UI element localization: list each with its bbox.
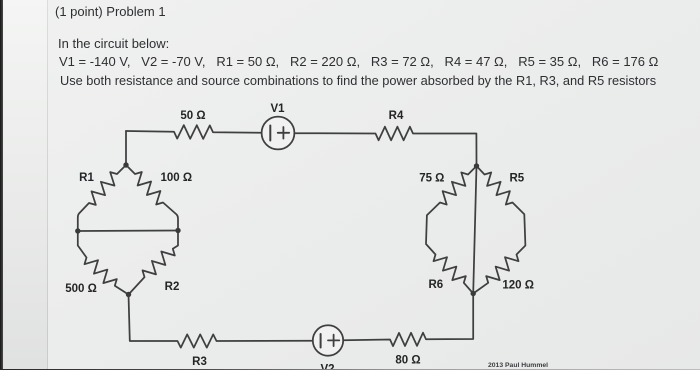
resistor R2 branch [129,231,179,295]
V2 plus sign [328,335,339,346]
V1 minus bar [269,126,271,141]
wire middle vertical of right bridge [473,166,476,294]
svg-text:R2: R2 [165,281,180,293]
resistor 75 ohm and R6 branch [426,166,477,294]
node left-diamond top [123,162,128,167]
voltage source V2 [313,325,343,355]
svg-text:75 Ω: 75 Ω [419,173,444,185]
svg-text:R3: R3 [192,356,207,368]
svg-text:120 Ω: 120 Ω [502,280,534,292]
svg-text:50 Ω: 50 Ω [180,110,205,122]
node left-diamond right [175,228,180,233]
svg-text:R6: R6 [428,279,443,291]
node right-diamond bottom [471,291,476,296]
svg-text:R1: R1 [79,172,94,184]
V2 minus bar [320,334,322,348]
svg-text:80 Ω: 80 Ω [395,355,420,367]
wire middle horizontal of left bridge [78,230,178,233]
resistor R1 branch [78,165,126,231]
svg-text:R4: R4 [389,110,404,122]
svg-text:V1: V1 [270,103,285,115]
voltage source V1 [262,117,295,150]
node left-diamond left [75,228,80,233]
node right-diamond top [474,163,479,168]
resistor 500 ohm branch [78,231,129,295]
node left-diamond bottom [126,292,131,297]
resistor R5 and 120 ohm branch [473,166,525,294]
wire with resistor 80 ohm and right bottom corner [343,294,473,347]
wire with resistor R4 and right top corner [295,127,477,166]
svg-text:500 Ω: 500 Ω [65,283,97,295]
wire bottom-left with resistor R3 [129,295,313,348]
svg-text:100 Ω: 100 Ω [160,172,192,184]
svg-text:R5: R5 [509,173,524,185]
resistor 100 ohm branch [126,165,178,231]
wire top-left with resistor 50ohm [126,125,261,139]
wire left vertical [125,131,127,165]
V1 plus sign [278,127,290,139]
